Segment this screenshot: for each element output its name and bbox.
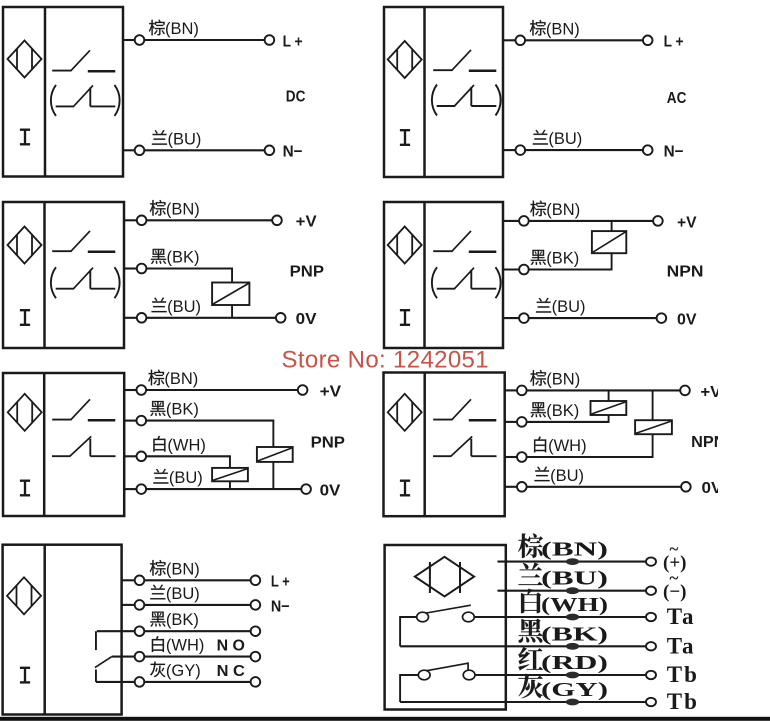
wire GY (gray) U7 NC xyxy=(144,681,251,683)
relay switch SW2 left contact xyxy=(418,670,430,680)
proximity sensor diamond symbol xyxy=(388,41,422,78)
pin circle BU U5 xyxy=(137,484,147,494)
pin circle BU U1 xyxy=(135,146,145,156)
svg-text:(GY): (GY) xyxy=(541,679,608,701)
svg-text:+V: +V xyxy=(700,384,721,401)
proximity sensor diamond symbol xyxy=(8,227,42,264)
label 兰(BU) U5 BU xyxy=(153,469,202,487)
wire BU (blue) U3 xyxy=(124,317,276,319)
wire load to 0V U3 xyxy=(231,305,233,319)
pin circle BN U4 xyxy=(519,216,529,226)
svg-text:(BU): (BU) xyxy=(550,467,584,485)
wire BN (brown) U7 xyxy=(122,579,251,581)
wire BU (blue) U2 xyxy=(503,149,643,151)
svg-text:(BN): (BN) xyxy=(541,539,608,561)
sensor housing box xyxy=(3,373,124,516)
node Tb terminal 2 U8 xyxy=(646,698,656,706)
label NO xyxy=(217,637,245,654)
pin circle BU U2 xyxy=(516,145,526,155)
label 棕(BN) U6 BN xyxy=(530,370,580,388)
svg-text:(WH): (WH) xyxy=(548,437,586,455)
NO contact switch xyxy=(52,399,115,420)
pin circle BN U7 xyxy=(135,576,145,586)
pin circle BU U6 xyxy=(517,482,527,492)
svg-text:AC: AC xyxy=(667,90,687,107)
label Tb 2 xyxy=(667,689,699,714)
proximity sensor diamond symbol xyxy=(8,41,42,78)
inductive sensor I mark xyxy=(20,481,30,496)
node +V terminal U5 xyxy=(298,385,308,395)
sensor housing box xyxy=(3,545,122,715)
svg-text:(BK): (BK) xyxy=(541,623,608,645)
junction dot GY U8 xyxy=(566,699,579,706)
wire WH (white) U5 output xyxy=(124,456,231,468)
label 兰(BU) U3 BU xyxy=(152,298,201,316)
label +V xyxy=(320,383,342,400)
wire WH (white) U8 Ta xyxy=(474,616,646,618)
svg-text:(BK): (BK) xyxy=(166,611,199,629)
inductive sensor I mark xyxy=(20,310,30,325)
svg-text:(BK): (BK) xyxy=(546,250,579,268)
wire BK (black) U6 output xyxy=(505,421,610,423)
svg-text:(BK): (BK) xyxy=(546,402,579,420)
NC contact switch xyxy=(432,267,501,298)
NO contact switch xyxy=(52,231,115,252)
node L+ terminal U7 xyxy=(251,576,261,586)
wire BN (brown) U1 xyxy=(123,39,265,41)
label 黑(BK) U7 BK xyxy=(150,611,199,629)
svg-text:0V: 0V xyxy=(320,483,341,500)
junction dot BU U8 xyxy=(566,587,579,594)
svg-text:(BN): (BN) xyxy=(546,20,580,38)
label 白(WH) U6 WH xyxy=(534,437,587,455)
svg-text:(BU): (BU) xyxy=(166,585,200,603)
node N- terminal U2 xyxy=(643,145,653,155)
watermark store number xyxy=(282,347,489,374)
svg-text:L +: L + xyxy=(664,34,684,51)
svg-text:(BN): (BN) xyxy=(546,370,580,388)
node N- terminal U7 xyxy=(251,600,261,610)
label 棕(BN) U8 BN xyxy=(518,533,608,560)
wire BU (blue) U1 xyxy=(123,149,265,151)
svg-text:NPN: NPN xyxy=(691,434,725,451)
sensor U3 (DC 3-wire PNP) xyxy=(3,202,124,348)
label ~(-) xyxy=(663,569,686,603)
pin circle BU U4 xyxy=(519,313,529,323)
NC contact switch xyxy=(433,436,497,456)
pin circle BN U6 xyxy=(517,386,527,396)
node GY terminal U7 xyxy=(251,677,261,687)
svg-text:+V: +V xyxy=(320,383,342,400)
svg-text:(BU): (BU) xyxy=(548,130,582,148)
label +V xyxy=(677,214,697,231)
pin circle BK U4 xyxy=(519,265,529,275)
proximity sensor diamond symbol U8 xyxy=(415,557,474,597)
label 红(RD) U8 RD xyxy=(518,647,608,674)
proximity sensor diamond symbol xyxy=(7,577,41,614)
label N- xyxy=(283,144,303,161)
sensor housing box xyxy=(384,373,505,517)
wire SW1 common to BK U8 xyxy=(400,616,646,646)
label Tb xyxy=(667,662,699,687)
pin circle GY U7 xyxy=(135,677,145,687)
label 0V xyxy=(320,483,341,500)
label 兰(BU) U6 BU xyxy=(535,467,584,485)
svg-text:Ta: Ta xyxy=(667,604,696,629)
pin circle BK U5 xyxy=(137,416,147,426)
svg-text:PNP: PNP xyxy=(290,264,325,281)
wire load2 to WH U6 xyxy=(652,434,654,457)
svg-text:~: ~ xyxy=(670,540,679,559)
wire BN (brown) U4 xyxy=(503,220,653,222)
pin circle BN U3 xyxy=(137,216,147,226)
node Ta terminal U8 xyxy=(646,613,656,621)
label ~(+) xyxy=(663,540,686,574)
wire BN (brown) U2 xyxy=(503,39,643,41)
svg-text:NPN: NPN xyxy=(667,264,704,281)
label 棕(BN) U3 BN xyxy=(150,200,200,218)
pin circle WH U6 xyxy=(517,452,527,462)
load resistor xyxy=(635,420,672,434)
svg-text:(BN): (BN) xyxy=(166,560,200,578)
label +V xyxy=(700,384,721,401)
wire BK (black) U7 xyxy=(144,630,251,632)
node Tb terminal U8 xyxy=(646,671,656,679)
sensor U5 (DC 4-wire PNP) xyxy=(3,373,124,516)
load resistor xyxy=(591,401,627,415)
junction dot BK U8 xyxy=(566,643,579,650)
NC contact switch xyxy=(52,436,116,456)
label 兰(BU) U8 BU xyxy=(518,563,608,590)
label DC supply xyxy=(286,89,306,106)
inductive sensor I mark xyxy=(20,130,30,145)
wire load to BK U4 xyxy=(611,253,613,269)
proximity sensor diamond symbol xyxy=(388,394,422,431)
label 白(WH) U8 WH xyxy=(521,589,608,616)
svg-text:N−: N− xyxy=(283,144,303,161)
pin circle BU U3 xyxy=(137,313,147,323)
label 棕(BN) U4 BN xyxy=(530,201,580,219)
inductive sensor I mark xyxy=(400,481,410,496)
label NPN type xyxy=(667,264,704,281)
wire BN (brown) U3 xyxy=(124,219,272,221)
node L+ terminal U1 xyxy=(265,35,275,45)
svg-text:+V: +V xyxy=(677,214,697,231)
label 兰(BU) U1 BU xyxy=(152,130,201,148)
relay switch SW2 right contact xyxy=(463,670,475,680)
node L+ terminal U2 xyxy=(643,36,653,46)
label 棕(BN) U5 BN xyxy=(148,370,198,388)
pin circle BN U1 xyxy=(135,35,145,45)
load resistor xyxy=(257,447,293,462)
label 黑(BK) U3 BK xyxy=(151,249,200,267)
sensor U4 (DC 3-wire NPN) xyxy=(384,202,503,348)
svg-text:(BU): (BU) xyxy=(552,298,586,316)
inductive sensor I mark xyxy=(400,130,410,145)
label 兰(BU) U4 BU xyxy=(536,298,585,316)
wire SW2 common to GY U8 xyxy=(400,674,646,702)
pin circle BK U6 xyxy=(517,417,527,427)
sensor housing box xyxy=(3,7,123,177)
svg-text:+V: +V xyxy=(296,214,317,231)
wire load1 to 0V U5 xyxy=(272,462,274,489)
svg-text:DC: DC xyxy=(286,89,306,106)
node 0V terminal U3 xyxy=(276,313,286,323)
load resistor xyxy=(212,283,249,306)
svg-text:(BU): (BU) xyxy=(167,298,201,316)
pin circle BK U3 xyxy=(137,264,147,274)
label 白(WH) U7 WH xyxy=(152,636,205,654)
svg-text:L +: L + xyxy=(283,33,303,50)
wire WH (white) U7 NO xyxy=(112,656,251,658)
svg-text:0V: 0V xyxy=(296,311,317,328)
wire BU (blue) U5 xyxy=(124,488,301,490)
svg-text:PNP: PNP xyxy=(311,435,346,452)
relay switch SW1 right contact xyxy=(463,612,475,622)
pin circle BU U7 xyxy=(135,600,145,610)
sensor housing box xyxy=(384,7,503,177)
label 白(WH) U5 WH xyxy=(153,436,206,454)
label 0V xyxy=(677,312,697,329)
label 黑(BK) U4 BK xyxy=(531,250,580,268)
node WH terminal U7 xyxy=(251,652,261,662)
label 灰(GY) U8 GY xyxy=(518,674,608,701)
node 0V terminal U5 xyxy=(301,484,311,494)
svg-text:(BK): (BK) xyxy=(166,401,199,419)
svg-text:N−: N− xyxy=(664,144,684,161)
wire +V to load1 U6 xyxy=(608,390,610,401)
relay switch SW2 lever xyxy=(426,662,468,670)
wire BU (blue) U8 xyxy=(498,590,647,592)
node N- terminal U1 xyxy=(265,146,275,156)
NO contact switch xyxy=(433,399,496,420)
proximity sensor diamond symbol xyxy=(8,394,42,431)
svg-text:(RD): (RD) xyxy=(541,652,608,674)
node +V terminal U3 xyxy=(272,216,282,226)
sensor U1 (DC 2-wire) xyxy=(3,7,123,177)
wire load2 to 0V U5 xyxy=(229,481,231,489)
node Ta terminal 2 U8 xyxy=(646,642,656,650)
relay switch SW1 lever xyxy=(426,605,471,613)
label +V xyxy=(296,214,317,231)
wire WH (white) U6 output xyxy=(505,456,654,458)
wire +V to load U4 xyxy=(611,221,613,231)
label 黑(BK) U6 BK xyxy=(531,402,580,420)
svg-text:Tb: Tb xyxy=(667,689,699,714)
wire BN (brown) U6 xyxy=(505,389,681,391)
sensor housing box xyxy=(385,545,506,710)
label L+ xyxy=(664,34,684,51)
label Ta 2 xyxy=(667,634,696,659)
svg-text:Store No: 1242051: Store No: 1242051 xyxy=(282,347,489,374)
svg-text:N O: N O xyxy=(217,637,245,654)
label L+ xyxy=(271,574,290,591)
pin circle BK U7 xyxy=(135,626,145,636)
pin circle WH U5 xyxy=(137,452,147,462)
svg-text:(BN): (BN) xyxy=(165,20,199,38)
svg-text:(BU): (BU) xyxy=(168,130,202,148)
SPDT switch pole from BK U7 xyxy=(96,631,135,650)
label 棕(BN) U1 BN xyxy=(149,20,199,38)
pin circle BN U2 xyxy=(516,36,526,46)
NC contact switch xyxy=(432,85,501,116)
wire BK (black) U5 output xyxy=(124,421,274,447)
sensor U2 (AC 2-wire) xyxy=(384,7,503,177)
label 兰(BU) U7 BU xyxy=(150,585,199,603)
wire BK (black) U4 output xyxy=(503,268,613,270)
label N- xyxy=(271,598,290,615)
junction dot RD U8 xyxy=(566,672,579,679)
sensor U7 (5-wire) xyxy=(3,545,122,715)
SPDT NC contact to GY U7 xyxy=(96,670,135,682)
node +V terminal U6 xyxy=(680,386,690,396)
sensor U6 (DC 4-wire NPN) xyxy=(384,373,505,517)
svg-text:(BN): (BN) xyxy=(164,370,198,388)
label AC supply xyxy=(667,90,687,107)
junction dot BN U8 xyxy=(566,558,579,565)
wire load1 to BK U6 xyxy=(608,415,610,422)
NO contact switch xyxy=(433,231,496,252)
wire BU (blue) U6 xyxy=(505,486,682,488)
inductive sensor I mark xyxy=(20,668,30,683)
node 0V terminal U4 xyxy=(657,313,667,323)
wire BU (blue) U7 xyxy=(122,604,251,606)
load resistor xyxy=(212,468,248,481)
wire BN (brown) U8 xyxy=(498,561,647,563)
svg-text:(GY): (GY) xyxy=(166,662,201,680)
label 黑(BK) U8 BK xyxy=(519,619,608,646)
svg-text:(BK): (BK) xyxy=(167,249,200,267)
label L+ xyxy=(283,33,303,50)
svg-text:L +: L + xyxy=(271,574,290,591)
label Ta xyxy=(667,604,696,629)
node BK terminal U7 xyxy=(251,626,261,636)
svg-text:Ta: Ta xyxy=(667,634,696,659)
wire BK (black) U3 output xyxy=(124,269,233,283)
svg-text:(BU): (BU) xyxy=(541,568,608,590)
junction dot WH U8 xyxy=(566,614,579,621)
svg-text:(WH): (WH) xyxy=(166,637,204,655)
SPDT lever U7 xyxy=(95,657,112,668)
label 0V xyxy=(702,480,723,497)
load resistor xyxy=(592,231,626,253)
label PNP type xyxy=(311,435,346,452)
NC contact switch xyxy=(51,85,120,116)
NC contact switch xyxy=(51,267,120,298)
node +V terminal U4 xyxy=(653,216,663,226)
sensor housing box xyxy=(384,202,503,348)
node ~(+) terminal U8 xyxy=(646,557,656,565)
svg-text:(WH): (WH) xyxy=(167,436,205,454)
label 黑(BK) U5 BK xyxy=(150,401,199,419)
wire BU (blue) U4 xyxy=(503,317,657,319)
svg-text:0V: 0V xyxy=(702,480,723,497)
relay switch SW1 left contact xyxy=(417,612,429,622)
pin circle BN U5 xyxy=(137,385,147,395)
svg-text:(BN): (BN) xyxy=(166,200,200,218)
svg-text:Tb: Tb xyxy=(667,662,699,687)
label 棕(BN) U2 BN xyxy=(530,20,580,38)
label NC xyxy=(217,663,246,680)
svg-text:(BU): (BU) xyxy=(169,469,203,487)
svg-text:N C: N C xyxy=(217,663,246,680)
svg-text:(BN): (BN) xyxy=(546,201,580,219)
label 棕(BN) U7 BN xyxy=(150,560,200,578)
node ~(-) terminal U8 xyxy=(646,587,656,595)
label NPN type xyxy=(691,434,725,451)
pin circle WH U7 xyxy=(135,652,145,662)
proximity sensor diamond symbol xyxy=(388,227,422,264)
label N- xyxy=(664,144,684,161)
label 0V xyxy=(296,311,317,328)
NO contact switch xyxy=(433,50,496,71)
label 灰(GY) U7 GY xyxy=(150,662,201,680)
wire RD (red) U8 Tb xyxy=(475,674,647,676)
bottom border line xyxy=(0,717,770,721)
wire +V to load2 U6 xyxy=(652,390,654,420)
NO contact switch xyxy=(52,50,115,71)
svg-text:0V: 0V xyxy=(677,312,697,329)
sensor U8 (AC 6-wire relay output) xyxy=(385,545,506,710)
svg-text:N−: N− xyxy=(271,598,290,615)
svg-text:(WH): (WH) xyxy=(541,594,608,616)
svg-text:~: ~ xyxy=(670,569,679,588)
inductive sensor I mark xyxy=(400,310,410,325)
label 兰(BU) U2 BU xyxy=(533,130,582,148)
sensor housing box xyxy=(3,202,124,348)
label PNP type xyxy=(290,264,325,281)
node 0V terminal U6 xyxy=(681,482,691,492)
wire BN (brown) U5 xyxy=(124,389,298,391)
